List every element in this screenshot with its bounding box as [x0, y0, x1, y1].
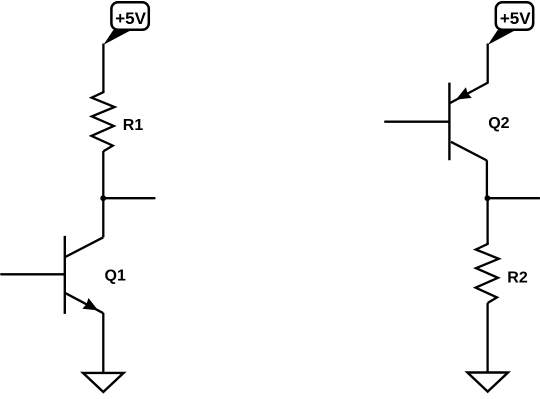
- power +5V badge (right): [488, 2, 533, 45]
- wire Q2 base input: [385, 121, 448, 123]
- ground (right): [467, 373, 508, 392]
- wire Q2 collector to node: [486, 160, 488, 198]
- resistor R2: [476, 243, 499, 304]
- wire output stub (left): [103, 197, 154, 199]
- svg-text:Q2: Q2: [488, 115, 509, 132]
- wire output stub (right): [487, 197, 539, 199]
- svg-text:+5V: +5V: [500, 9, 531, 28]
- node collector junction (left): [100, 195, 106, 201]
- wire node to Q1 collector bend: [102, 198, 104, 237]
- wire +5V to Q2 emitter: [450, 44, 488, 104]
- transistor Q2: [449, 83, 487, 161]
- transistor Q1: [65, 236, 104, 314]
- svg-text:Q1: Q1: [105, 268, 126, 285]
- wire Q1 emitter to ground: [102, 313, 104, 373]
- node collector junction (right): [485, 195, 491, 201]
- wire node to R2: [486, 198, 488, 244]
- svg-text:R1: R1: [123, 117, 144, 134]
- wire Q1 base input: [1, 273, 64, 275]
- power +5V badge (left): [103, 2, 148, 45]
- ground (left): [83, 373, 124, 392]
- resistor R1: [91, 91, 114, 152]
- svg-text:R2: R2: [507, 269, 528, 286]
- wire +5V to R1 (left): [102, 44, 104, 93]
- wire R1 to collector node (left): [102, 151, 104, 198]
- svg-text:+5V: +5V: [115, 9, 146, 28]
- wire R2 to ground: [486, 303, 488, 372]
